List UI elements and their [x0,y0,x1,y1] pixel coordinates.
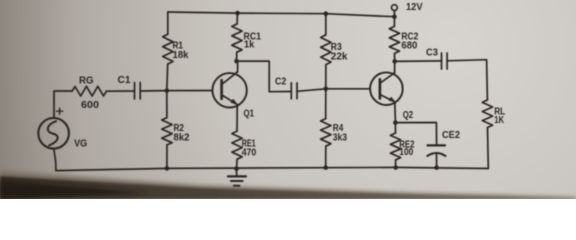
resistor R2 [166,91,168,118]
dark photo edge band at bottom [0,176,576,199]
resistor RE1 [232,131,242,159]
svg-text:1K: 1K [494,114,504,126]
wire: VG column top [54,91,72,118]
resistor R3 [325,14,327,35]
resistor RG [72,86,106,96]
svg-text:12V: 12V [406,1,423,13]
capacitor C2 [290,83,292,99]
wire: VG bottom to rail [54,149,56,171]
junction R2 bottom rail [165,166,170,171]
svg-text:RG: RG [79,75,94,87]
resistor R4 [325,89,327,119]
wire: collector2 node to C3 [395,60,442,63]
left edge shading [0,0,80,199]
junction RE1/ground rail [234,166,239,171]
wire: collector node to C2 [237,61,292,92]
capacitor C3 [441,53,443,69]
svg-text:1k: 1k [244,39,254,51]
capacitor C1 [134,83,136,100]
resistor RL [482,100,492,128]
svg-text:C1: C1 [118,74,131,86]
svg-text:680: 680 [401,40,417,52]
top +V rail [168,12,395,17]
junction RC1 top rail [235,11,240,16]
svg-text:22k: 22k [331,51,348,63]
resistor RC1 [236,13,239,24]
svg-text:100: 100 [399,146,413,158]
svg-text:600: 600 [81,99,99,111]
svg-text:18k: 18k [173,49,189,61]
junction node B (C2/R3/R4/Q2 base) [324,87,329,92]
wire: base Q2 [326,88,370,90]
wire: Q1 emitter to RE1 [236,104,238,131]
svg-text:8k2: 8k2 [174,132,190,144]
bottom rail [56,167,488,170]
resistor R1 [167,12,169,34]
svg-text:VG: VG [74,138,87,150]
transistor Q2 [370,72,403,105]
wire: base Q1 [167,90,213,92]
junction R3 top rail [324,11,329,16]
svg-text:470: 470 [242,147,257,159]
resistor RC2 [393,17,395,27]
wire: Q2 collector [394,61,396,72]
svg-text:C2: C2 [275,76,286,88]
junction CE2 bottom rail [434,165,439,170]
deep dark bottom-left corner [0,181,150,199]
junction node A (C1/R1/R2/Q1 base) [165,88,170,93]
transistor Q1 [212,73,246,107]
wire: Q1 collector [237,61,239,72]
svg-text:Q2: Q2 [403,109,414,121]
svg-text:Q1: Q1 [244,108,255,120]
12V terminal [392,5,398,11]
wire: C2 to node B [297,89,326,92]
svg-text:C3: C3 [426,47,438,59]
soft shadow above bottom edge [0,171,576,199]
source VG [38,118,69,149]
wire C1 to node A [140,90,167,92]
junction 12V rail [392,14,397,19]
junction Q2 collector/RC2 [392,59,397,64]
wire: C3 to RL [447,60,487,100]
svg-text:3k3: 3k3 [333,132,347,144]
junction Q1 collector/RC1 [234,59,239,64]
junction Q2 emitter/RE2/CE2 [393,120,398,125]
junction R4 bottom rail [323,165,328,170]
junction RE2 bottom rail [393,165,398,170]
ground [236,169,238,177]
resistor RE2 [394,123,396,133]
wire: Q2 emitter node [394,102,397,123]
svg-text:CE2: CE2 [442,129,460,141]
wire: emitter node to CE2 [395,123,436,146]
plus sign of VG [57,108,63,114]
wire RG to C1 [106,90,134,92]
capacitor CE2 (polarized) [428,144,446,146]
